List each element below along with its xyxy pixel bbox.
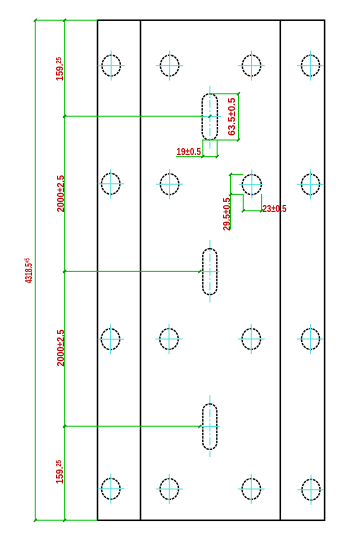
extension line top edge [35, 19, 97, 21]
dim box 63.5 right line [238, 94, 240, 140]
dim 19 left extension [202, 140, 204, 157]
extension line slot3 center [63, 425, 200, 427]
hole r3c3 [238, 324, 265, 354]
svg-text:4318.5+5: 4318.5+5 [23, 258, 35, 283]
divider line right [279, 20, 281, 520]
extension line bottom edge [35, 519, 97, 521]
dim 19 right extension [216, 140, 218, 157]
dim box 63.5 bottom line [202, 139, 238, 141]
extension line slot1 center [63, 115, 204, 117]
hole r2c2 [156, 169, 183, 199]
plate outline [98, 20, 325, 520]
slot 2 (middle) [200, 240, 220, 303]
dim 29.5 top tangent line [231, 173, 244, 175]
hole r4c3 [238, 474, 265, 504]
dimension line segments (159/2000/2000/159) vertical [64, 20, 66, 520]
slot 3 (bottom) [200, 395, 220, 457]
dim 29.5 bottom tangent line [231, 193, 244, 195]
hole r1c2 [156, 51, 183, 81]
dim 19 underline [176, 156, 217, 158]
hole r4c2 [156, 474, 183, 504]
dim 29.5 vertical line [230, 174, 232, 229]
svg-text:2000±2.5: 2000±2.5 [55, 329, 67, 366]
hole r1c3 [238, 51, 265, 81]
slot 1 (top) [200, 86, 221, 149]
dim 23 left extension [242, 194, 244, 210]
hole r1c1 [98, 51, 125, 81]
svg-text:29.5±0.5: 29.5±0.5 [221, 198, 233, 231]
dim box 63.5 top line [210, 93, 239, 95]
svg-text:2000±2.5: 2000±2.5 [55, 175, 67, 212]
hole r2c1 [98, 169, 125, 199]
dimension line overall (4318.5) vertical [34, 20, 36, 520]
hole r4c1 [98, 474, 125, 504]
hole r3c2 [156, 324, 183, 354]
hole r2c3 (dimensioned hole) [239, 169, 263, 198]
hole r2c4 [297, 169, 324, 199]
dim 23 right extension [261, 194, 263, 211]
divider line left [140, 20, 142, 520]
svg-text:19±0.5: 19±0.5 [177, 146, 202, 158]
hole r3c1 [98, 324, 124, 354]
tick marks at dimension junctions [34, 19, 263, 522]
extension line slot2 center [63, 270, 200, 272]
hole r3c4 [297, 324, 324, 354]
svg-text:63.5±0.5: 63.5±0.5 [226, 98, 238, 136]
hole r4c4 [298, 475, 325, 505]
svg-text:23±0.5: 23±0.5 [263, 203, 287, 215]
hole r1c4 [297, 51, 324, 81]
dim 23 line [243, 210, 262, 212]
